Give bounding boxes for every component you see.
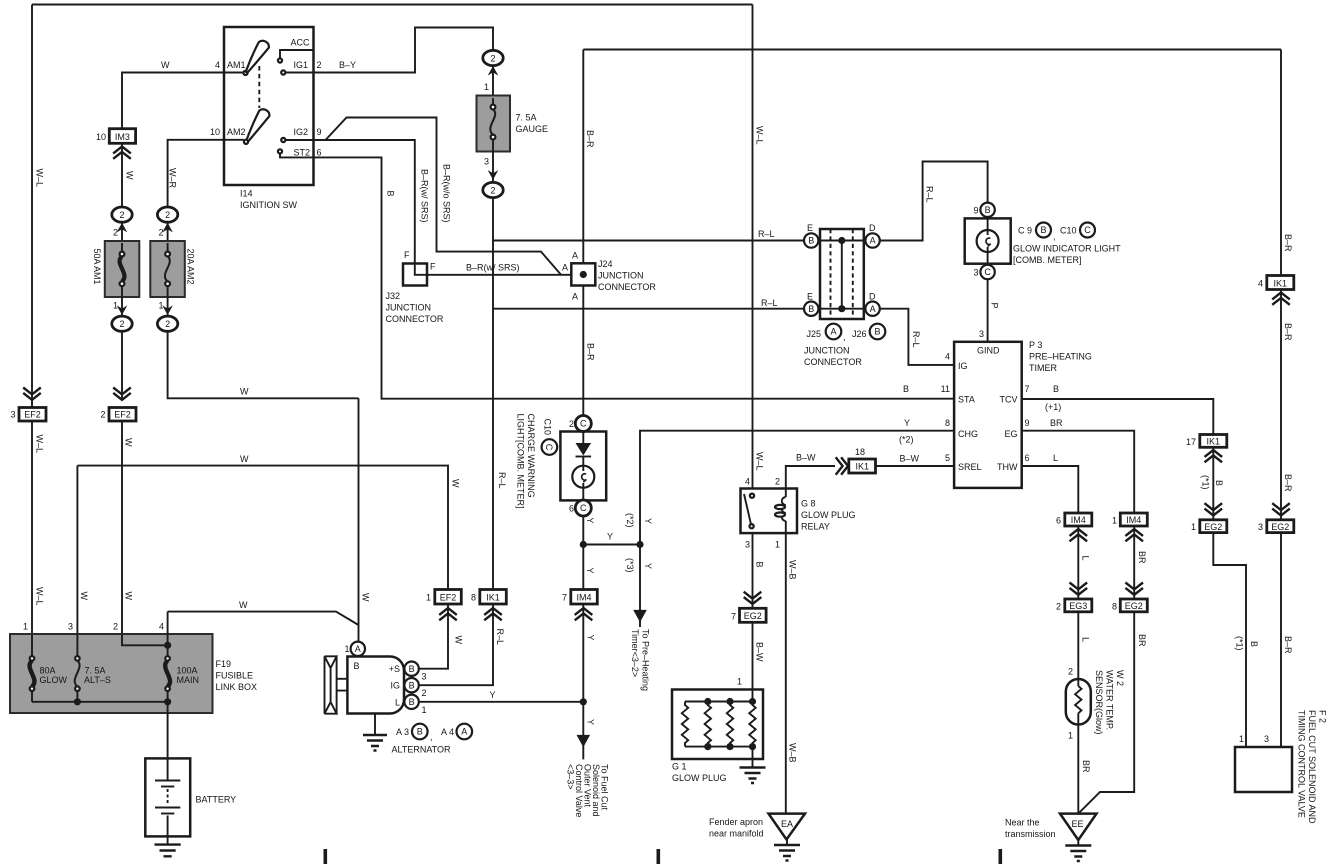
svg-text:,: , [430,732,433,742]
svg-text:(*2): (*2) [899,435,914,445]
chevron right into IK1-18 [836,457,848,475]
svg-text:CHARGE WARNING: CHARGE WARNING [526,414,536,498]
connector circle 2 above 50A AM1 [112,207,132,222]
glow plug resistors [682,702,756,747]
svg-text:B–R: B–R [586,343,596,361]
svg-text:W–L: W–L [755,452,765,471]
svg-text:J26: J26 [852,329,867,339]
svg-text:AM1: AM1 [227,60,246,70]
svg-text:18: 18 [855,447,865,457]
svg-text:Y: Y [585,518,595,524]
svg-text:GLOW INDICATOR LIGHT: GLOW INDICATOR LIGHT [1013,244,1121,254]
svg-text:JUNCTION: JUNCTION [804,346,850,356]
svg-text:THW: THW [997,462,1018,472]
connector IK1 pin 18 [849,459,876,473]
svg-text:J25: J25 [807,329,822,339]
fuse 20A AM2 [150,241,185,297]
svg-text:B–W: B–W [755,642,765,662]
svg-text:B: B [409,697,415,707]
alternator body [347,657,404,714]
svg-text:C: C [544,444,554,451]
alternator shaft [337,679,348,691]
svg-text:7. 5A: 7. 5A [85,666,106,676]
glow indicator bulb [977,230,999,252]
svg-text:C: C [580,503,587,513]
svg-text:B: B [417,727,423,737]
svg-text:B: B [1249,641,1259,647]
connector EG2 pin 1 [1200,520,1227,533]
svg-text:B: B [755,562,765,568]
svg-text:RELAY: RELAY [801,522,830,532]
svg-text:PRE–HEATING: PRE–HEATING [1029,352,1092,362]
svg-text:11: 11 [941,384,950,394]
chevron down above EF2-2 [113,388,131,400]
chevron up below IM4-6 [1070,529,1088,541]
junction dot Y net right [636,541,643,548]
connector IM4 pin 7 [571,590,598,605]
svg-text:J24: J24 [598,259,613,269]
svg-text:W–L: W–L [35,169,45,188]
svg-text:B–R(w/ SRS): B–R(w/ SRS) [420,169,430,223]
svg-text:1: 1 [484,82,489,92]
svg-text:B–W: B–W [796,453,816,463]
svg-text:W: W [79,592,89,601]
ignition sw contact AM1 [243,71,247,75]
wire R-L IK1-8 to alternator IG [419,604,493,685]
svg-text:B: B [1214,480,1224,486]
glow plug junction dots [704,698,711,705]
wire BR IM4-1 to EG2-8 [1133,526,1135,599]
svg-text:Y: Y [490,690,496,700]
wire Y junction to junction [583,544,640,546]
svg-text:2: 2 [490,185,495,195]
wire L IM4-6 to EG3-2 [1077,526,1079,599]
svg-text:Y: Y [585,568,595,574]
ignition sw dashed link [258,66,260,108]
ignition sw internal AM2 lead [224,139,244,141]
svg-text:B–R: B–R [1283,234,1293,252]
wire P from glow indicator to timer GIND [987,279,989,342]
connector EG2 pin 8 [1120,599,1147,612]
svg-text:1: 1 [422,705,427,715]
svg-text:6: 6 [317,148,322,158]
chevron up below IM4-1 [1125,529,1143,541]
wire top border W-L [32,4,753,6]
wire B-R right vertical to IK1 [1280,50,1282,276]
junction dot Y net left [580,541,587,548]
svg-text:IG: IG [390,681,400,691]
svg-text:(+1): (+1) [1045,402,1061,412]
svg-text:IG2: IG2 [294,127,309,137]
wire B-W EG2-7 to glow plug [752,622,754,689]
svg-text:EG: EG [1004,429,1017,439]
svg-text:10: 10 [210,127,220,137]
svg-text:9: 9 [1025,418,1030,428]
arrow to fuel cut solenoid page ref [577,735,591,747]
chevron up below IK1-4 [1272,293,1290,305]
glow plug internal buses [685,702,753,747]
svg-text:4: 4 [215,60,220,70]
svg-text:P: P [990,303,1000,309]
ignition switch I14 box [224,27,314,185]
wire Y alternator L to junction [419,701,583,703]
svg-text:IK1: IK1 [1274,278,1288,288]
svg-text:B: B [1040,225,1046,235]
svg-text:B: B [409,664,415,674]
svg-text:W: W [451,479,461,488]
svg-text:1: 1 [344,644,349,654]
chevron down above EG2-7 [744,592,762,604]
wire W from IM3 to circle [121,143,123,207]
svg-text:C: C [1084,225,1091,235]
svg-text:10: 10 [96,132,106,142]
svg-text:CONNECTOR: CONNECTOR [598,282,656,292]
svg-text:7: 7 [562,593,567,603]
svg-text:C: C [580,419,587,429]
svg-text:L: L [1053,453,1058,463]
svg-text:E: E [807,292,813,302]
junction connector J24 box [571,263,595,285]
svg-text:R–L: R–L [758,229,775,239]
svg-text:2: 2 [100,410,105,420]
svg-text:(*2): (*2) [625,513,635,528]
pre-heating timer P3 box [954,342,1022,488]
svg-text:3: 3 [422,672,427,682]
fuse 100A MAIN [165,656,170,661]
svg-text:transmission: transmission [1005,829,1056,839]
svg-text:A: A [870,304,876,314]
chevron below IM3 [113,147,131,159]
svg-text:W: W [161,60,170,70]
svg-text:B–Y: B–Y [339,60,356,70]
wire B IK1-17 to EG2-1 [1212,447,1214,520]
connector circle 2 below gauge [483,182,503,197]
svg-text:A: A [562,263,568,273]
svg-text:JUNCTION: JUNCTION [598,271,644,281]
svg-text:SREL: SREL [958,462,982,472]
svg-text:9: 9 [317,127,322,137]
wire L THW to IM4-6 [1022,466,1079,513]
svg-text:C10: C10 [1060,226,1077,236]
svg-text:4: 4 [159,622,164,632]
connector circle 2 above 20A AM2 [157,207,177,222]
arrow into circle 2 [488,66,499,76]
svg-text:A 3: A 3 [396,727,409,737]
svg-text:R–L: R–L [925,186,935,203]
svg-text:B: B [385,191,395,197]
wire Y down to page arrow [639,545,641,628]
svg-text:W: W [361,593,371,602]
wire R-L from J26 D to timer IG [880,309,954,365]
chevron down above EG2-1 [1205,503,1223,515]
ground below glow plug [740,768,766,784]
svg-text:W: W [124,438,134,447]
wire B-R top horizontal [583,49,1281,51]
glow indicator light pin 3 circle [980,265,994,279]
svg-text:2: 2 [775,477,780,487]
svg-text:R–L: R–L [497,472,507,489]
chevron up below IM4-7 [575,608,593,620]
svg-text:B–W: B–W [900,454,920,464]
wire B relay pin3 to EG2-7 [752,533,754,608]
fusible link pin4 internal [167,612,169,655]
svg-text:W–B: W–B [788,560,798,580]
wire B-R from J24 down to charge warning light [582,286,584,416]
svg-text:B: B [409,680,415,690]
svg-text:P 3: P 3 [1029,340,1042,350]
wire B-R IK1-4 to EG2-3 [1280,290,1282,520]
svg-text:D: D [869,223,876,233]
svg-text:1: 1 [1191,522,1196,532]
wire R-L row2 to junction connector [493,308,804,310]
junction connector pin circles row1 [804,233,818,247]
svg-text:Y: Y [643,518,653,524]
svg-text:A: A [572,251,578,261]
svg-text:3: 3 [10,410,15,420]
svg-text:1: 1 [158,301,163,311]
svg-text:1: 1 [113,301,118,311]
wire W-L left border from battery feed [31,5,33,656]
fuse 50A AM1 [105,241,140,297]
svg-text:F19: F19 [216,659,232,669]
svg-text:2: 2 [569,419,574,429]
svg-text:1: 1 [1068,731,1073,741]
svg-text:GLOW: GLOW [40,675,68,685]
svg-text:W: W [454,636,464,645]
connector circle 2 below 50A AM1 [112,316,132,331]
ignition sw IG2 contact [281,138,285,142]
svg-text:7. 5A: 7. 5A [516,113,537,123]
svg-text:3: 3 [973,268,978,278]
svg-text:Timer<3–2>: Timer<3–2> [630,629,640,677]
alternator ground [374,714,376,735]
svg-text:4: 4 [745,477,750,487]
svg-text:A: A [870,236,876,246]
svg-text:IK1: IK1 [486,593,500,603]
connector IM4 pin 1 [1120,513,1147,526]
svg-text:W–R: W–R [168,168,178,189]
svg-text:,: , [1053,232,1056,242]
svg-text:3: 3 [68,622,73,632]
wire B EG2-1 to F2 pin 1 [1213,533,1246,747]
svg-text:EF2: EF2 [24,410,41,420]
svg-text:CHG: CHG [958,429,978,439]
fuse 7.5A GAUGE [477,96,511,152]
svg-text:B: B [903,384,909,394]
svg-text:B–R(w/o SRS): B–R(w/o SRS) [442,164,452,223]
svg-text:BR: BR [1137,551,1147,564]
svg-text:Y: Y [607,532,613,542]
svg-text:ALTERNATOR: ALTERNATOR [392,745,452,755]
svg-text:L: L [1081,556,1091,561]
svg-text:2: 2 [119,319,124,329]
svg-text:B: B [1053,384,1059,394]
svg-text:W–L: W–L [755,126,765,145]
svg-text:F: F [404,250,410,260]
relay coil [785,489,787,498]
wire BR EG2-8 to EE ground [1078,612,1134,814]
svg-text:9: 9 [973,206,978,216]
svg-text:W–B: W–B [788,743,798,763]
svg-text:CONNECTOR: CONNECTOR [386,314,444,324]
connector EG2 pin 7 [740,608,767,622]
glow plug G1 box [672,690,763,760]
svg-text:AM2: AM2 [227,127,246,137]
svg-text:2: 2 [119,210,124,220]
svg-text:2: 2 [317,60,322,70]
ignition sw internal AM1 lead [224,72,243,74]
wire B-R(w/o SRS) from IG2 [326,118,562,275]
bulb in charge warning light [572,466,594,488]
svg-text:(*1): (*1) [1235,636,1245,651]
svg-text:TIMER: TIMER [1029,363,1057,373]
svg-text:Y: Y [904,418,910,428]
connector EG2 pin 3 [1267,520,1294,533]
svg-text:B: B [354,661,360,671]
connector EF2 pin 1 [435,590,462,605]
fusible link internal bus [32,701,168,703]
svg-text:2: 2 [113,228,118,238]
svg-text:L: L [1081,637,1091,642]
svg-text:IG: IG [958,361,968,371]
wire R-L from gauge circle down [492,198,494,590]
chevron up below EF2-1 [439,608,457,620]
ignition sw wedge AM1 [246,41,269,73]
connector IK1 pin 8 [480,590,507,605]
svg-text:6: 6 [1025,453,1030,463]
ignition sw ACC contact and stub [280,50,314,59]
svg-text:2: 2 [490,53,495,63]
svg-text:TCV: TCV [1000,395,1018,405]
ignition sw ST2 contact and stub [278,149,282,153]
wire B-R(w/ SRS) from IG2 [314,140,428,275]
svg-text:C 9: C 9 [1018,226,1032,236]
wire Y down to fuel cut page arrow [582,702,584,760]
connector IK1 pin 4 [1267,276,1294,290]
svg-text:B–R: B–R [1283,323,1293,341]
glow indicator light pin 9 circle [980,203,994,217]
svg-text:W: W [125,171,135,180]
alternator pin circles [404,662,418,676]
ground EA triangle [769,814,806,840]
chevron down above EG2-3 [1272,503,1290,515]
svg-text:W 2: W 2 [1115,670,1125,686]
svg-text:B: B [874,327,880,337]
svg-text:IM3: IM3 [115,132,130,142]
svg-text:CONNECTOR: CONNECTOR [804,357,862,367]
svg-text:D: D [869,292,876,302]
svg-text:[COMB. METER]: [COMB. METER] [1013,255,1082,265]
svg-text:IK1: IK1 [855,462,869,472]
wire W down to EF2 [121,331,123,399]
ground EE triangle [1060,814,1097,840]
svg-text:4: 4 [945,352,950,362]
svg-text:GIND: GIND [977,346,1000,356]
arrows up into circles [117,223,128,233]
svg-text:E: E [807,223,813,233]
wire TCV B to IK1-17 [1022,399,1214,435]
svg-text:G 1: G 1 [672,762,687,772]
ground below battery [155,845,181,857]
wire B-R down to J24 [582,50,584,264]
svg-text:EG2: EG2 [744,611,762,621]
ignition sw wedge AM2 [246,109,269,142]
svg-text:W–L: W–L [35,587,45,606]
svg-text:GAUGE: GAUGE [516,124,549,134]
svg-text:JUNCTION: JUNCTION [386,303,432,313]
chevron down above EG2-8 [1125,583,1143,595]
svg-text:I14: I14 [240,189,253,199]
svg-text:BR: BR [1137,634,1147,647]
ignition sw contact AM2 [244,140,248,144]
svg-text:ALT–S: ALT–S [84,675,111,685]
wire W from EF2-2 to fusible link pin 2 [122,421,166,645]
arrow to pre-heating timer page ref [633,610,647,622]
svg-text:IG1: IG1 [294,60,309,70]
svg-text:3: 3 [1258,522,1263,532]
wire battery to fusible link [167,702,169,759]
wire R-L row1 to junction connector [493,240,804,242]
wire B-Y from IG1 to gauge fuse [314,28,494,73]
connector circle 2 above gauge [483,50,503,65]
wire L EG3-2 to water temp sensor [1077,612,1079,679]
svg-text:BATTERY: BATTERY [196,795,237,805]
svg-text:F: F [430,262,436,272]
svg-text:ACC: ACC [291,38,311,48]
svg-text:L: L [395,698,400,708]
svg-text:MAIN: MAIN [177,675,200,685]
svg-text:A: A [461,727,467,737]
svg-text:8: 8 [945,418,950,428]
svg-text:B: B [808,304,814,314]
svg-text:W: W [239,600,248,610]
svg-text:LINK BOX: LINK BOX [216,682,258,692]
svg-text:WATER TEMP.: WATER TEMP. [1105,670,1115,730]
svg-text:1: 1 [23,622,28,632]
svg-text:80A: 80A [40,666,56,676]
svg-text:EF2: EF2 [114,410,131,420]
ignition sw IG1 contact [281,70,285,74]
svg-text:R–L: R–L [761,298,778,308]
svg-text:BR: BR [1050,418,1063,428]
svg-text:2: 2 [1056,602,1061,612]
wire W-B relay pin1 to EA ground [785,533,787,814]
wire B-W relay pin2 to IK1-18 [786,466,835,489]
svg-text:(*1): (*1) [1201,475,1211,490]
svg-text:B–R: B–R [585,130,595,148]
svg-text:20A AM2: 20A AM2 [186,249,196,285]
svg-text:2: 2 [158,228,163,238]
svg-text:B: B [985,205,991,215]
svg-text:G 8: G 8 [801,499,816,509]
svg-text:B: B [808,236,814,246]
svg-text:GLOW PLUG: GLOW PLUG [801,510,856,520]
wire W from AM2 fuse to alternator A [358,398,360,641]
svg-text:,: , [843,332,846,342]
svg-text:3: 3 [1264,734,1269,744]
svg-text:Y: Y [586,635,596,641]
svg-text:W: W [124,592,134,601]
svg-text:7: 7 [1025,384,1030,394]
svg-text:IK1: IK1 [1207,437,1221,447]
wire B-R(w/ SRS) from J32 to J24 [427,274,571,276]
wire W to AM1 [122,73,224,130]
diode in charge warning light [576,443,592,456]
svg-text:8: 8 [1112,602,1117,612]
junction connector J32 box [403,264,427,286]
svg-text:1: 1 [1112,516,1117,526]
svg-text:Y: Y [586,719,596,725]
